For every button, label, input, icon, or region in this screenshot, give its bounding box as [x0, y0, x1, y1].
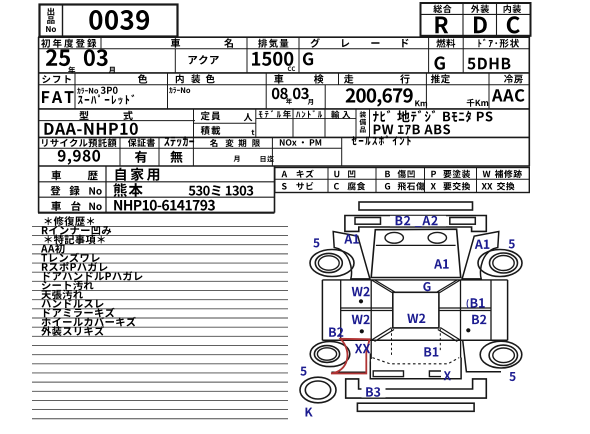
- label X rear: [444, 371, 451, 380]
- tailgate outline: [370, 358, 461, 379]
- header ー: [371, 42, 379, 44]
- interior color no: [169, 87, 190, 93]
- remark 天張汚れ: [41, 290, 83, 300]
- label B2 _A2: [396, 216, 438, 227]
- header 登: [50, 186, 60, 196]
- label 5 rear-right: [509, 372, 515, 381]
- bottom strip: [357, 403, 474, 411]
- header 色: [138, 74, 148, 83]
- unit CC: [288, 67, 295, 72]
- unit Km: [415, 100, 427, 106]
- label 出: [48, 8, 55, 16]
- column separators row2: [74, 73, 76, 109]
- legend X: [431, 183, 436, 190]
- unit 人: [244, 113, 253, 121]
- header 車: [171, 38, 180, 47]
- label 備: [360, 119, 367, 125]
- header 初年度登録: [41, 39, 96, 48]
- label B1 tailgate: [424, 347, 438, 356]
- label 5 front-left: [313, 238, 319, 247]
- roof: [393, 292, 439, 328]
- label W2 left door1: [352, 287, 370, 296]
- header 名変-名: [210, 139, 218, 147]
- remark underline: [32, 354, 288, 356]
- remark 外装スリキズ: [41, 326, 104, 336]
- front bumper: [359, 202, 473, 210]
- rear-right wheel rim: [489, 345, 517, 365]
- windshield A-pillar right double line: [440, 280, 461, 293]
- color no label: [77, 88, 98, 94]
- header 燃料: [436, 39, 455, 48]
- remark underline: [32, 253, 288, 255]
- header 名変-期: [238, 139, 246, 147]
- header 積載: [201, 126, 221, 135]
- legend 要塗装: [443, 170, 470, 178]
- label B3 rear bumper: [366, 387, 380, 397]
- remark underline: [32, 244, 288, 246]
- legend 傷凹: [398, 170, 415, 178]
- legend U: [334, 171, 339, 178]
- legend 交換: [497, 182, 515, 190]
- label bg B3: [362, 387, 386, 398]
- remark underline: [32, 399, 288, 401]
- repaired area red outline XX: [331, 339, 370, 374]
- front-left wheel rim: [315, 253, 342, 272]
- shaken year 08: [272, 88, 288, 100]
- legend 凹: [348, 171, 355, 178]
- header 型: [79, 111, 88, 120]
- header グ: [310, 38, 319, 48]
- remark underline: [32, 235, 288, 237]
- label A1 left fender: [344, 234, 359, 243]
- displacement 1500: [252, 52, 293, 66]
- header No2: [89, 187, 101, 195]
- left quarter bottom edge: [331, 371, 366, 373]
- legend B: [385, 171, 390, 178]
- dot left door2: [360, 329, 364, 333]
- right fender: [462, 232, 499, 279]
- legend G2: [385, 183, 390, 190]
- dot right door: [466, 328, 470, 332]
- remark ＊特記事項＊: [45, 235, 105, 245]
- right door seam double line: [439, 307, 491, 309]
- remark ＊修復歴＊: [45, 216, 95, 226]
- dashed line right: [439, 329, 441, 352]
- label bg B2 A2: [390, 216, 446, 226]
- color code 3P0: [101, 87, 118, 94]
- legend C: [334, 183, 339, 190]
- header 外装: [471, 5, 489, 14]
- rear small bracket: [429, 371, 441, 377]
- header 車検-検: [314, 74, 324, 84]
- remark underline: [32, 344, 288, 346]
- unit 月2: [308, 99, 313, 105]
- unit 千Km: [467, 99, 489, 107]
- header 行: [400, 74, 410, 83]
- remark underline: [32, 409, 288, 411]
- right C-pillar double line: [440, 328, 460, 340]
- remark underline: [32, 326, 288, 328]
- shaken month 03: [293, 88, 309, 100]
- lot number box (shuppin No): [40, 5, 178, 37]
- label 装: [360, 111, 366, 117]
- remark underline: [32, 280, 288, 282]
- header リサイクル預託額: [42, 138, 117, 147]
- legend 要交換: [443, 182, 470, 190]
- header 内装: [504, 5, 521, 14]
- dot left door1: [359, 299, 363, 303]
- rear garnish bar: [373, 371, 403, 377]
- front-right wheel tire: [478, 250, 522, 277]
- mileage 200,679: [346, 88, 413, 106]
- remark Rインナー凹み: [42, 226, 111, 235]
- legend A: [282, 171, 288, 178]
- remark underline: [32, 271, 288, 273]
- header 冷房: [504, 74, 523, 83]
- interior grade C: [507, 16, 520, 33]
- value 有: [135, 151, 147, 163]
- rear window dashed outline: [372, 358, 459, 364]
- remark underline: [32, 290, 288, 292]
- right quarter panel outline: [463, 340, 501, 371]
- legend キズ: [297, 170, 314, 178]
- left C-pillar double line: [372, 328, 392, 340]
- label B2 left rocker: [329, 327, 343, 336]
- value 自家用: [116, 168, 160, 181]
- label W2 left door2: [352, 315, 370, 324]
- header NOx PM: [280, 139, 321, 146]
- label G windshield: [423, 282, 430, 291]
- remark underline: [32, 262, 288, 264]
- legend W: [483, 171, 491, 178]
- exterior grade D: [474, 17, 487, 34]
- cowl line: [376, 244, 456, 246]
- remark シート汚れ: [42, 280, 94, 290]
- header シフト: [42, 75, 71, 83]
- color スーパーレッド: [78, 94, 135, 104]
- plate 熊本: [114, 183, 143, 197]
- shift FAT: [42, 91, 74, 103]
- header 名変-変: [226, 139, 234, 147]
- row separators: [38, 48, 530, 50]
- label 日迄: [261, 156, 274, 163]
- label 月3: [234, 156, 240, 162]
- left door seam double line: [341, 307, 393, 309]
- header 車台-車: [51, 201, 61, 211]
- plate number: [189, 185, 254, 196]
- unit 年: [68, 66, 75, 73]
- remark underline: [32, 225, 288, 227]
- front-right wheel rim: [490, 253, 518, 273]
- body top line: [322, 279, 507, 281]
- remark ホイールカバーキズ: [42, 317, 136, 327]
- remark underline: [32, 299, 288, 301]
- column separators row1: [100, 37, 102, 49]
- remark ドアハンドルPハガレ: [44, 271, 143, 280]
- legend サビ: [296, 182, 313, 190]
- header 総合: [433, 5, 451, 14]
- remark ハンドルスレ: [42, 299, 104, 308]
- remark ドアミラーキズ: [44, 308, 115, 318]
- header セールスポイント: [352, 135, 411, 145]
- doors 5DHB: [467, 58, 510, 70]
- header 名変-限: [252, 139, 260, 147]
- equipment line2: [374, 124, 450, 134]
- rear-right wheel tire: [480, 341, 522, 368]
- header 台: [71, 201, 81, 211]
- header ド: [402, 39, 408, 48]
- legend table: [275, 168, 530, 193]
- label A1 right fender: [475, 240, 490, 249]
- car name アクア: [189, 55, 219, 64]
- lot number 0039: [89, 10, 149, 30]
- legend 補修跡: [495, 170, 522, 178]
- column separators history block: [105, 166, 107, 213]
- aircon AAC: [492, 89, 525, 102]
- remark underline: [32, 372, 288, 374]
- column separators row4: [119, 137, 121, 166]
- column separators row3: [193, 109, 195, 137]
- overall grade R: [435, 17, 448, 34]
- value 無: [170, 151, 182, 163]
- remark underline: [32, 381, 288, 383]
- header 式: [124, 111, 133, 120]
- header 録: [69, 186, 79, 196]
- label B2 right door2: [472, 315, 486, 324]
- header 色2: [206, 74, 215, 83]
- remark underline: [32, 390, 288, 392]
- header 内: [176, 74, 184, 83]
- header 車歴-車: [52, 170, 62, 180]
- front-left wheel tire: [310, 250, 354, 277]
- header 走: [344, 74, 354, 83]
- left quarter top edge: [370, 340, 372, 359]
- remark AA初: [41, 244, 65, 254]
- front panel left lamp: [355, 218, 381, 225]
- header 推定: [431, 74, 450, 83]
- left washer ellipse: [385, 232, 403, 243]
- model code DAA-NHP10: [45, 123, 138, 135]
- header 輸入: [331, 111, 350, 119]
- remark underline: [32, 335, 288, 337]
- rear-left wheel tire: [310, 341, 350, 366]
- header ステッカー: [164, 136, 194, 146]
- label B1 right door1: [471, 298, 485, 307]
- label 5 front-right: [509, 239, 515, 248]
- grade G: [303, 52, 313, 65]
- windshield A-pillar left double line: [372, 280, 393, 293]
- dashed line left: [391, 329, 393, 358]
- body bottom line: [322, 339, 507, 341]
- remark underline: [32, 317, 288, 319]
- year 25: [46, 49, 70, 66]
- label W2 roof: [407, 314, 425, 323]
- left quarter side edge: [369, 354, 371, 362]
- remark underline: [32, 418, 288, 420]
- header モデル年: [259, 110, 291, 118]
- chassis number: [114, 200, 215, 211]
- unit t: [252, 130, 255, 135]
- header 定員: [201, 111, 221, 120]
- left fender: [333, 232, 370, 279]
- label No: [46, 26, 56, 32]
- main table outer border: [38, 36, 530, 38]
- header ハンドル: [296, 110, 322, 118]
- remark underline: [32, 363, 288, 365]
- label 5 rear-left: [300, 367, 306, 376]
- hood: [371, 229, 461, 277]
- legend P: [431, 171, 436, 178]
- header 保証書: [128, 138, 155, 147]
- unit 年2: [286, 98, 292, 104]
- legend S: [282, 183, 287, 190]
- label 品2: [360, 127, 366, 133]
- legend 飛石傷: [398, 182, 425, 190]
- header 車検-車: [274, 74, 283, 83]
- front panel: [345, 216, 486, 232]
- rear-left wheel rim: [314, 346, 339, 363]
- left side panel: [321, 280, 323, 340]
- grade box: [421, 3, 531, 36]
- front panel right lamp: [450, 218, 476, 225]
- header No3: [89, 203, 101, 211]
- header ドア・形状: [478, 39, 519, 48]
- right quarter top edge: [460, 340, 462, 357]
- header 名: [224, 38, 233, 48]
- legend 腐食: [348, 182, 366, 190]
- header 装: [191, 74, 200, 83]
- right side panel: [507, 280, 509, 340]
- remark Tレンズワレ: [41, 253, 99, 263]
- legend XX: [482, 183, 493, 190]
- label K spare: [306, 408, 313, 417]
- fuel G: [434, 56, 445, 69]
- label A1 hood: [434, 259, 449, 268]
- remark underline: [32, 308, 288, 310]
- header レ: [342, 39, 349, 47]
- header 車歴-歴: [88, 171, 98, 180]
- header 排気量: [258, 39, 288, 48]
- remark RスポPハガレ: [42, 262, 108, 272]
- label 品: [47, 16, 54, 24]
- rear bumper: [346, 379, 487, 398]
- spare tire: [300, 377, 336, 403]
- right washer ellipse: [428, 232, 446, 243]
- recycle fee 9,980: [58, 150, 100, 165]
- unit 月: [109, 67, 115, 74]
- label XX left quarter: [355, 344, 370, 353]
- month 03: [84, 49, 108, 66]
- equipment line1: [373, 110, 493, 122]
- tick before B1: [467, 299, 469, 308]
